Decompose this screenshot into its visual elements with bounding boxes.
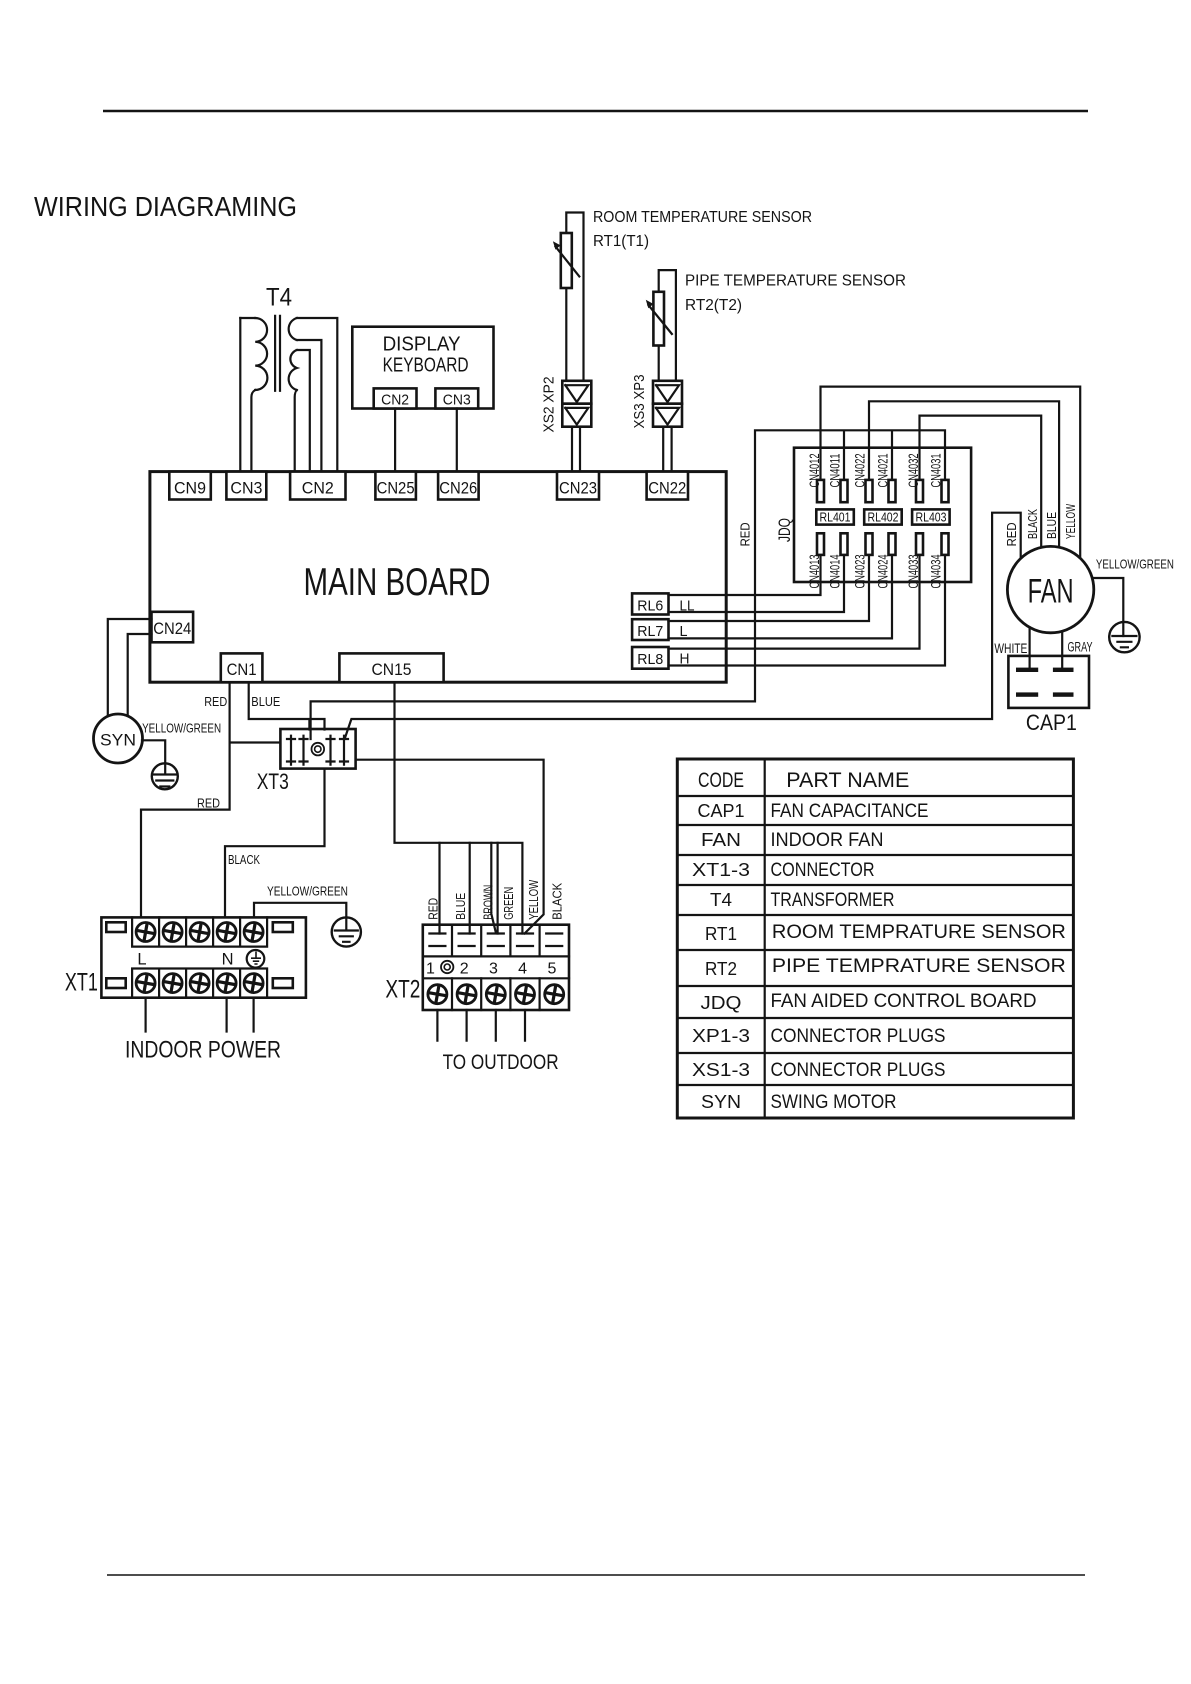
- connector CN2 (board): [290, 472, 345, 500]
- svg-text:2: 2: [460, 961, 469, 978]
- svg-text:RED: RED: [1004, 522, 1019, 546]
- wire XT3 to XT1 N terminal: [225, 769, 325, 918]
- wire XT3 to XT2 black: [356, 760, 544, 934]
- connector CN25: [375, 472, 416, 500]
- svg-text:CN3: CN3: [443, 392, 471, 409]
- ground (XT1): [332, 917, 361, 946]
- svg-text:CAP1: CAP1: [1026, 710, 1077, 735]
- svg-text:RT1: RT1: [705, 923, 737, 944]
- svg-text:YELLOW/GREEN: YELLOW/GREEN: [1096, 558, 1174, 572]
- svg-text:XS2 XP2: XS2 XP2: [542, 377, 558, 433]
- svg-text:BLACK: BLACK: [1025, 509, 1040, 539]
- svg-text:WIRING DIAGRAMING: WIRING DIAGRAMING: [34, 191, 297, 222]
- connector CN1: [221, 653, 263, 682]
- wire bus to XT2 terminal 1 (red): [438, 843, 440, 934]
- svg-text:INDOOR FAN: INDOOR FAN: [771, 829, 884, 851]
- svg-text:RT2(T2): RT2(T2): [685, 297, 742, 314]
- svg-text:SYN: SYN: [701, 1091, 741, 1112]
- svg-text:CN4024: CN4024: [875, 554, 891, 588]
- swing motor SYN: [94, 714, 143, 763]
- pin CN4024: [875, 533, 896, 588]
- svg-text:TRANSFORMER: TRANSFORMER: [771, 889, 895, 911]
- svg-text:ROOM TEMPERATURE SENSOR: ROOM TEMPERATURE SENSOR: [593, 209, 812, 226]
- terminal block XT2: [423, 925, 569, 1010]
- terminal block XT3: [257, 729, 356, 794]
- svg-text:BLACK: BLACK: [551, 882, 565, 920]
- svg-text:CN4013: CN4013: [806, 554, 822, 588]
- svg-text:CN25: CN25: [377, 479, 415, 498]
- svg-text:CN4032: CN4032: [905, 453, 921, 487]
- svg-text:XT1: XT1: [65, 968, 98, 996]
- svg-text:CN2: CN2: [381, 392, 409, 409]
- terminal numbers 1-5: [426, 961, 556, 978]
- wire fan WHITE to CAP1: [1028, 627, 1030, 667]
- connector CN3 (display keyboard): [435, 388, 478, 408]
- svg-text:GRAY: GRAY: [1068, 640, 1093, 655]
- wire RL6 to CN4013: [669, 555, 821, 595]
- wire XS2 to CN23: [572, 427, 580, 472]
- connector XS2 XP2: [542, 377, 592, 433]
- wire XS3 to CN22: [663, 427, 671, 472]
- svg-text:XT1-3: XT1-3: [692, 859, 750, 880]
- wire fan RED to XT3 pin4: [345, 513, 1021, 739]
- wire CN24 to SYN (lead 2): [128, 634, 152, 717]
- svg-text:MAIN BOARD: MAIN BOARD: [304, 561, 491, 604]
- svg-text:CN4011: CN4011: [827, 453, 843, 487]
- svg-text:RED: RED: [204, 695, 227, 709]
- wire CN15 bus to XT2: [395, 682, 523, 933]
- connector CN26: [438, 472, 479, 500]
- svg-text:CN4033: CN4033: [905, 554, 921, 588]
- svg-text:SYN: SYN: [100, 731, 136, 750]
- display keyboard board: [352, 327, 493, 409]
- svg-text:CN3: CN3: [230, 479, 262, 498]
- svg-text:RL403: RL403: [916, 511, 947, 525]
- connector CN22: [647, 472, 688, 500]
- svg-text:KEYBOARD: KEYBOARD: [383, 355, 469, 377]
- wire bus to XT2 terminal 3 (green): [497, 843, 499, 934]
- svg-text:YELLOW/GREEN: YELLOW/GREEN: [267, 885, 348, 899]
- pin CN4034: [928, 533, 949, 588]
- main board: [150, 472, 726, 683]
- svg-text:RED: RED: [426, 898, 440, 920]
- wire RL8 to CN4033: [669, 555, 920, 649]
- pin CN4013: [806, 533, 824, 588]
- svg-text:XP1-3: XP1-3: [692, 1025, 750, 1046]
- wire relay commons CN4011 CN4021 CN4031 to RED line: [311, 430, 945, 739]
- svg-text:RL401: RL401: [820, 511, 851, 525]
- svg-text:WHITE: WHITE: [994, 641, 1027, 656]
- pin CN4033: [905, 533, 923, 588]
- wire RL7 to CN4024: [669, 555, 893, 639]
- transformer T4: [240, 284, 337, 472]
- svg-text:FAN AIDED CONTROL BOARD: FAN AIDED CONTROL BOARD: [771, 990, 1037, 1012]
- screw terminals XT1 top row: [135, 922, 155, 942]
- connector CN24: [152, 612, 194, 643]
- wire RL7 to CN4023: [669, 555, 870, 621]
- wire SYN to ground: [142, 740, 165, 763]
- svg-text:TO OUTDOOR: TO OUTDOOR: [443, 1051, 559, 1074]
- svg-text:FAN: FAN: [701, 829, 741, 850]
- pin CN4031: [928, 453, 949, 502]
- connector XS3 XP3: [632, 375, 682, 429]
- svg-text:JDQ: JDQ: [775, 518, 794, 542]
- wire fan YELLOW/GREEN to ground: [1092, 578, 1123, 622]
- terminal mark (double circle): [441, 961, 453, 973]
- svg-text:RED: RED: [197, 796, 220, 810]
- svg-text:PIPE TEMPRATURE SENSOR: PIPE TEMPRATURE SENSOR: [772, 955, 1066, 977]
- parts table: [677, 759, 1073, 1118]
- svg-text:PART NAME: PART NAME: [786, 769, 909, 792]
- PE terminal symbol: [247, 950, 265, 968]
- connector CN3 (board): [226, 472, 266, 500]
- svg-text:CN4034: CN4034: [928, 554, 944, 588]
- svg-text:RT2: RT2: [705, 958, 737, 979]
- svg-text:GREEN: GREEN: [502, 887, 516, 920]
- svg-text:XT3: XT3: [257, 769, 289, 794]
- wire stubs below XT1: [146, 998, 254, 1032]
- svg-text:FAN: FAN: [1028, 573, 1074, 611]
- relay RL402: [864, 509, 902, 524]
- svg-text:CONNECTOR PLUGS: CONNECTOR PLUGS: [771, 1059, 946, 1081]
- svg-text:CODE: CODE: [698, 769, 744, 792]
- svg-text:CN23: CN23: [559, 479, 597, 498]
- wire RL8 to CN4034: [669, 555, 946, 666]
- relay RL6: [632, 593, 668, 614]
- svg-text:CN24: CN24: [153, 619, 191, 638]
- screw terminals XT2: [427, 984, 447, 1004]
- pin CN4032: [905, 453, 923, 502]
- ground (fan): [1109, 622, 1139, 652]
- thermistor RT2 (pipe temperature sensor): [646, 270, 676, 381]
- connector CN2 (display keyboard): [374, 388, 417, 408]
- svg-text:FAN CAPACITANCE: FAN CAPACITANCE: [771, 800, 929, 822]
- svg-text:CN22: CN22: [648, 479, 686, 498]
- fan motor FAN: [1007, 546, 1093, 632]
- svg-text:CN26: CN26: [439, 479, 477, 498]
- connector CN9: [169, 472, 211, 500]
- svg-text:1: 1: [426, 961, 435, 978]
- JDQ fan aided control board: [775, 448, 971, 582]
- svg-text:YELLOW: YELLOW: [1063, 504, 1078, 539]
- svg-text:5: 5: [547, 961, 556, 978]
- svg-text:CN4014: CN4014: [827, 554, 843, 588]
- pin CN4021: [875, 453, 896, 502]
- wire RL6 to CN4014: [669, 555, 845, 612]
- connector CN23: [557, 472, 599, 500]
- svg-text:BROWN: BROWN: [481, 885, 495, 920]
- svg-text:CN9: CN9: [174, 479, 206, 498]
- svg-text:RT1(T1): RT1(T1): [593, 233, 649, 250]
- wire bus to XT2 terminal 3 (brown): [491, 843, 495, 932]
- svg-text:L: L: [680, 623, 688, 640]
- svg-text:N: N: [222, 951, 234, 969]
- svg-text:CN1: CN1: [227, 660, 257, 679]
- wire fan GRAY to CAP1: [1061, 631, 1063, 667]
- svg-text:3: 3: [489, 961, 498, 978]
- svg-text:BLUE: BLUE: [251, 695, 280, 709]
- svg-text:JDQ: JDQ: [701, 992, 742, 1013]
- svg-text:T4: T4: [710, 889, 732, 910]
- connector CN15: [339, 653, 443, 682]
- wire CN4022 to fan BLUE: [869, 401, 1059, 547]
- svg-text:CAP1: CAP1: [698, 800, 745, 821]
- relay RL403: [912, 509, 950, 524]
- wire CN4032 to fan BLACK: [920, 416, 1042, 548]
- wire CN1 BLUE to XT3 pin3: [249, 682, 325, 729]
- screw terminals XT1 bottom row: [135, 973, 155, 993]
- ground (SYN): [152, 763, 178, 789]
- capacitor CAP1: [1008, 656, 1089, 735]
- relay RL401: [816, 509, 854, 524]
- svg-text:DISPLAY: DISPLAY: [383, 334, 461, 356]
- svg-text:CN4022: CN4022: [852, 453, 868, 487]
- svg-text:INDOOR POWER: INDOOR POWER: [125, 1037, 281, 1064]
- wire CN24 to SYN (lead 1): [108, 619, 152, 717]
- svg-text:CN4021: CN4021: [875, 453, 891, 487]
- svg-text:CN4023: CN4023: [852, 554, 868, 588]
- wire XT1 PE to ground: [254, 903, 346, 918]
- svg-text:BLUE: BLUE: [454, 893, 468, 920]
- pin CN4023: [852, 533, 873, 588]
- svg-text:XS1-3: XS1-3: [692, 1059, 750, 1080]
- svg-text:ROOM TEMPRATURE SENSOR: ROOM TEMPRATURE SENSOR: [772, 921, 1066, 943]
- thermistor RT1 (room temperature sensor): [553, 213, 584, 381]
- wire CN1 RED to XT3 pin1 and XT1 L terminal: [141, 682, 280, 917]
- wire stubs below XT2: [437, 1010, 525, 1041]
- svg-text:XT2: XT2: [385, 976, 420, 1004]
- terminal block XT1: [101, 917, 306, 997]
- svg-text:RL402: RL402: [868, 511, 899, 525]
- svg-text:YELLOW/GREEN: YELLOW/GREEN: [142, 722, 221, 736]
- svg-text:T4: T4: [266, 284, 292, 312]
- pin CN4014: [827, 533, 848, 588]
- wire display CN2 to board CN25: [394, 409, 396, 472]
- svg-text:CONNECTOR: CONNECTOR: [771, 859, 875, 881]
- svg-text:PIPE TEMPERATURE SENSOR: PIPE TEMPERATURE SENSOR: [685, 273, 906, 290]
- wire display CN3 to board CN26: [456, 409, 458, 472]
- svg-text:CN15: CN15: [372, 660, 412, 679]
- svg-text:CN4031: CN4031: [928, 453, 944, 487]
- svg-text:4: 4: [518, 961, 527, 978]
- svg-text:L: L: [137, 951, 146, 969]
- pin CN4012: [806, 453, 824, 502]
- svg-text:BLUE: BLUE: [1044, 512, 1059, 539]
- svg-text:CN2: CN2: [302, 479, 334, 498]
- svg-text:YELLOW: YELLOW: [527, 880, 541, 920]
- wire bus to XT2 terminal 2 (blue): [469, 843, 471, 934]
- wire CN4012 to fan YELLOW: [821, 387, 1081, 558]
- relay RL7: [632, 619, 668, 640]
- relay RL8: [632, 647, 668, 669]
- svg-text:RED: RED: [737, 522, 752, 546]
- svg-text:RL6: RL6: [637, 598, 663, 615]
- svg-text:CN4012: CN4012: [806, 453, 822, 487]
- pin CN4022: [852, 453, 873, 502]
- pin CN4011: [827, 453, 848, 502]
- svg-text:CONNECTOR PLUGS: CONNECTOR PLUGS: [771, 1025, 946, 1047]
- svg-text:BLACK: BLACK: [228, 853, 261, 867]
- svg-text:RL7: RL7: [637, 623, 663, 640]
- svg-text:XS3 XP3: XS3 XP3: [632, 375, 648, 429]
- svg-text:RL8: RL8: [637, 651, 663, 668]
- svg-text:SWING MOTOR: SWING MOTOR: [771, 1091, 897, 1113]
